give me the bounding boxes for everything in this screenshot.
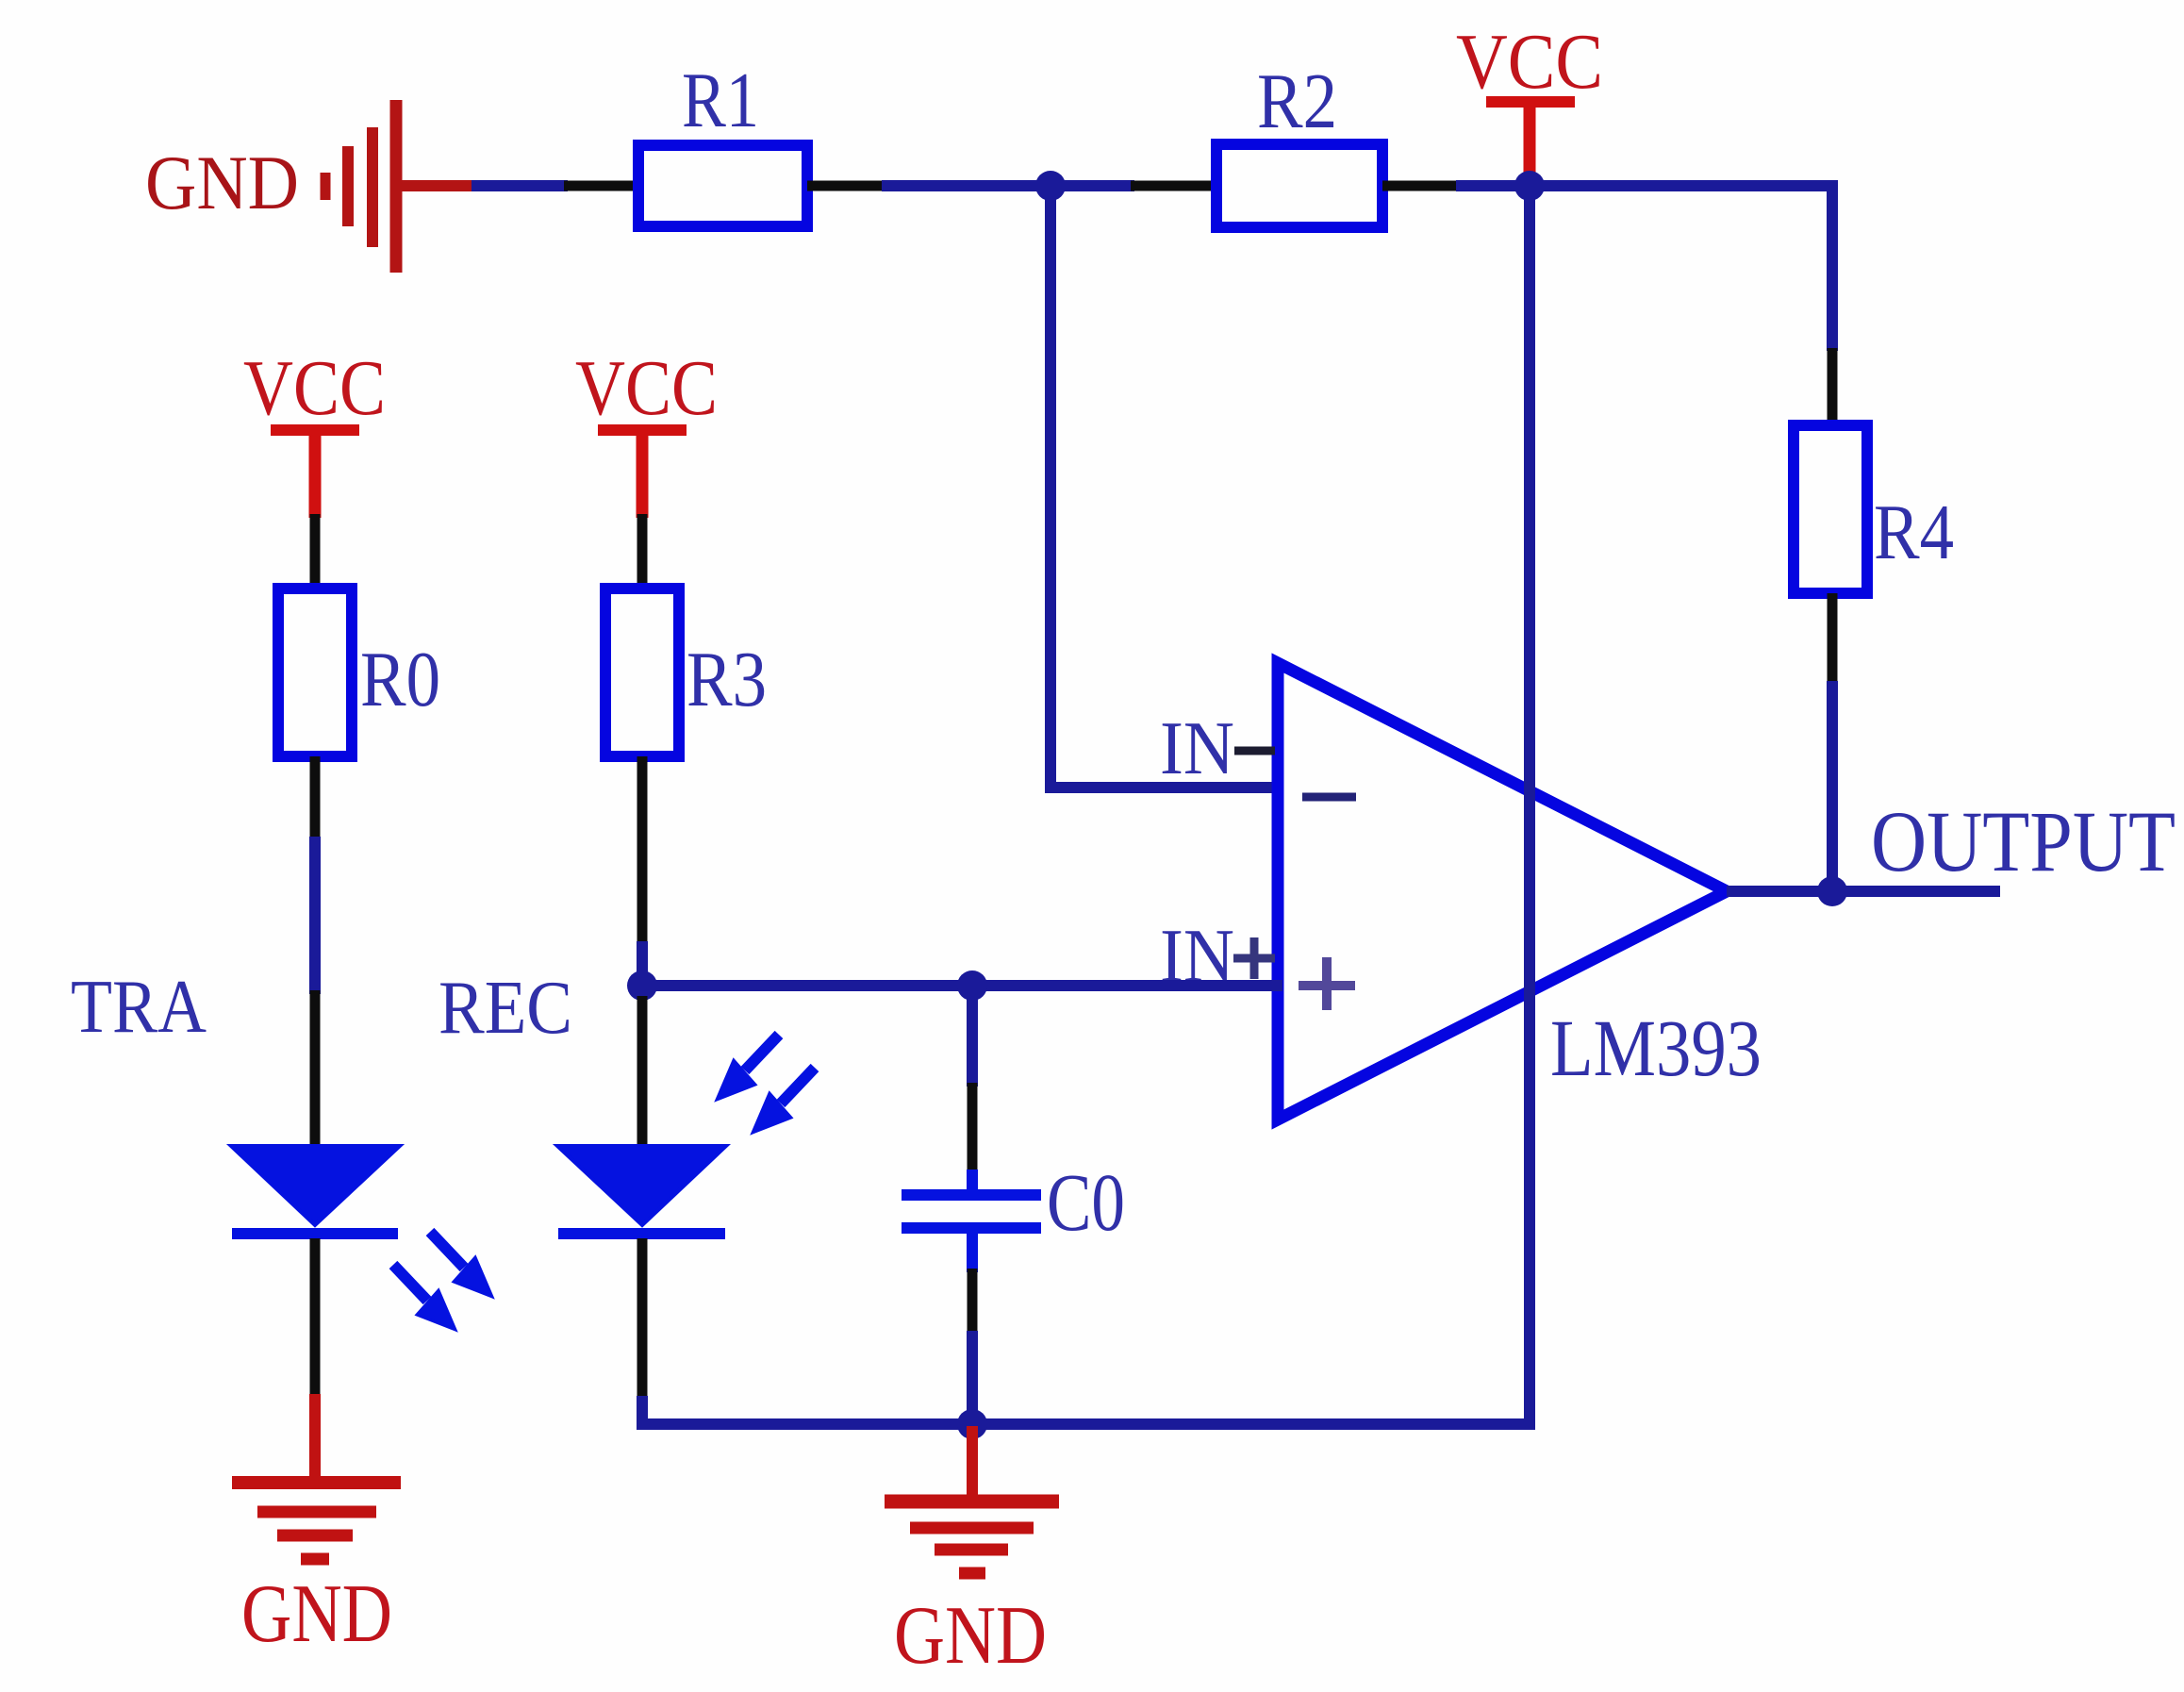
power VCC top bbox=[1486, 102, 1575, 190]
svg-text:R2: R2 bbox=[1257, 58, 1337, 145]
wire R4 to output junction bbox=[1828, 593, 1838, 895]
svg-text:LM393: LM393 bbox=[1550, 1003, 1762, 1093]
wire output bbox=[1727, 886, 2000, 897]
resistor R2 bbox=[1216, 144, 1382, 227]
wire bottom rail to op-amp power line bbox=[972, 1418, 1535, 1430]
wire R3 to REC node bbox=[637, 756, 648, 1000]
op-amp U1 LM393 triangle bbox=[1278, 663, 1727, 1120]
svg-text:REC: REC bbox=[438, 965, 572, 1050]
resistor R4 bbox=[1794, 425, 1867, 593]
svg-text:GND: GND bbox=[241, 1568, 392, 1660]
svg-text:VCC: VCC bbox=[1456, 18, 1603, 106]
svg-text:IN: IN bbox=[1160, 707, 1234, 790]
wire node A to R2 bbox=[1051, 180, 1218, 191]
svg-text:C0: C0 bbox=[1047, 1156, 1125, 1248]
op-amp minus input symbol bbox=[1302, 793, 1356, 802]
node A junction (R1/R2/IN-) bbox=[1035, 171, 1066, 201]
wire GND stem bottom-center bbox=[967, 1426, 978, 1501]
svg-text:R1: R1 bbox=[682, 57, 759, 144]
wire IN+ rail bbox=[642, 980, 1282, 991]
svg-text:R4: R4 bbox=[1874, 489, 1954, 576]
wire VCC to R3 bbox=[637, 514, 648, 592]
svg-text:GND: GND bbox=[894, 1590, 1047, 1682]
svg-text:VCC: VCC bbox=[575, 344, 718, 432]
power rail vertical through op-amp bbox=[1524, 186, 1535, 1430]
wire REC node to LED REC bbox=[637, 996, 648, 1149]
wire R0 to LED TRA bbox=[310, 756, 321, 1149]
wire R1 to node A bbox=[807, 181, 1056, 191]
wire C0 lower lead bbox=[967, 1228, 978, 1430]
op-amp plus input symbol bbox=[1299, 957, 1355, 1010]
wire R2 to VCC node bbox=[1382, 181, 1535, 191]
resistor R0 bbox=[278, 589, 352, 756]
wire LED REC to bottom rail bbox=[642, 1238, 972, 1424]
ground GND bottom-left bbox=[232, 1483, 401, 1559]
svg-text:GND: GND bbox=[145, 140, 299, 225]
resistor R3 bbox=[605, 589, 679, 756]
node output junction bbox=[1817, 876, 1847, 906]
wire IN- horizontal to op-amp bbox=[1045, 782, 1282, 793]
node C0 top junction bbox=[957, 970, 987, 1001]
wire LED TRA to ground bbox=[310, 1238, 321, 1483]
power VCC middle (above R3) bbox=[598, 430, 687, 518]
wire GND to R1 bbox=[472, 180, 641, 191]
svg-text:R0: R0 bbox=[360, 636, 440, 723]
LED REC (photodiode) bbox=[557, 1146, 726, 1234]
LED TRA (transmitter diode) bbox=[231, 1146, 400, 1234]
node VCC junction bbox=[1514, 171, 1545, 201]
wire C0 upper lead bbox=[967, 986, 978, 1195]
wire VCC node to top-right corner and down to R4 bbox=[1530, 186, 1832, 429]
power VCC left (above R0) bbox=[271, 430, 359, 518]
node REC junction bbox=[627, 970, 657, 1001]
node bottom junction bbox=[957, 1409, 987, 1439]
ground GND bottom-center bbox=[885, 1501, 1059, 1573]
capacitor C0 bbox=[902, 1195, 1041, 1228]
wire IN- vertical from node A bbox=[1045, 186, 1056, 793]
resistor R1 bbox=[638, 145, 807, 226]
svg-text:R3: R3 bbox=[687, 636, 767, 723]
svg-text:TRA: TRA bbox=[71, 964, 207, 1049]
svg-text:OUTPUT: OUTPUT bbox=[1871, 793, 2176, 889]
LED TRA emission arrows bbox=[393, 1232, 492, 1330]
svg-text:VCC: VCC bbox=[243, 344, 386, 432]
wire VCC to R0 bbox=[310, 514, 321, 592]
LED REC incident light arrows bbox=[717, 1035, 815, 1133]
ground GND top-left symbol bbox=[325, 100, 475, 273]
